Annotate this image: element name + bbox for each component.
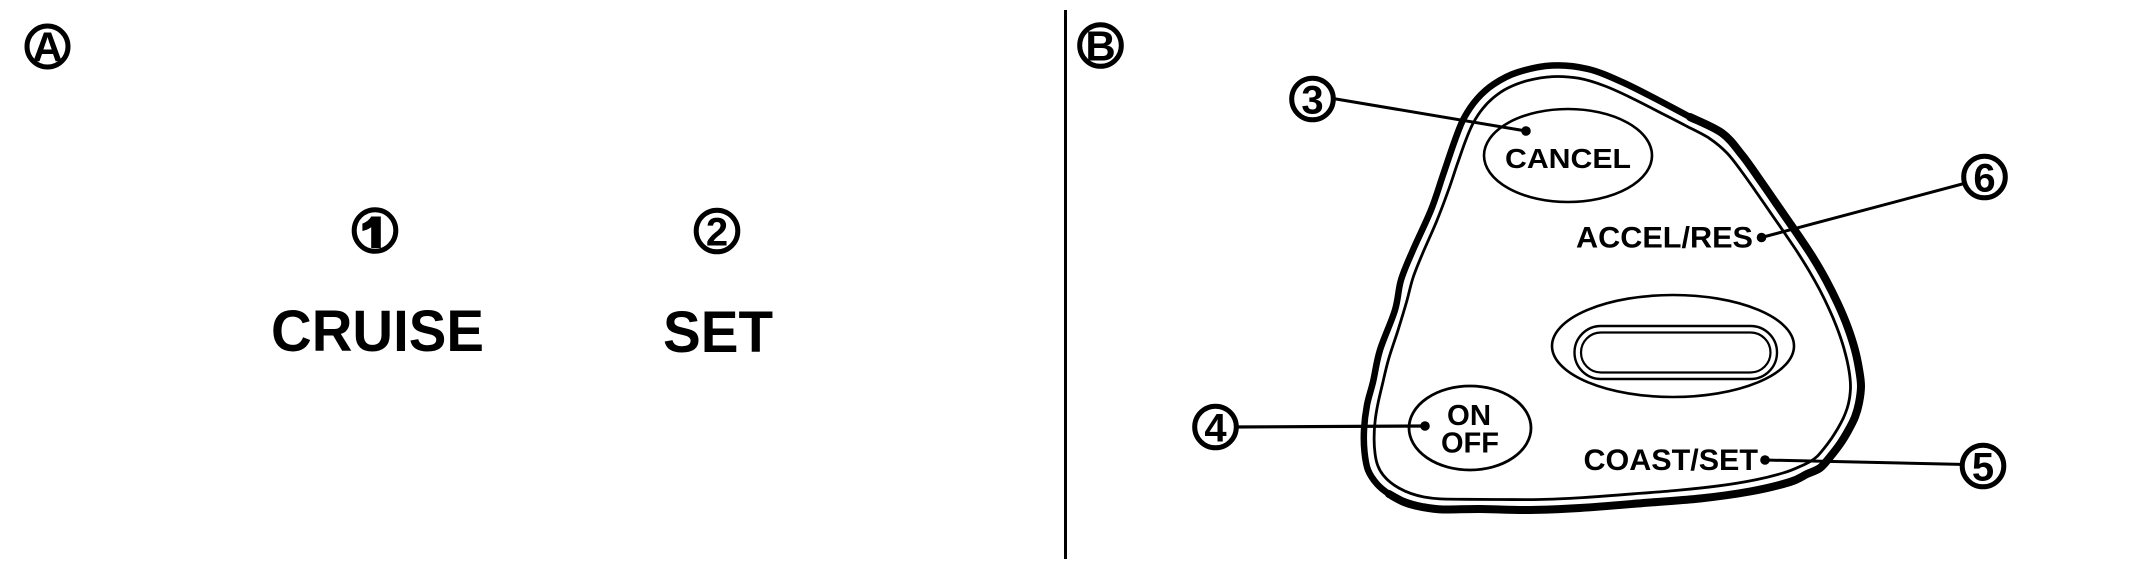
label B (circled) — [1080, 23, 1122, 70]
control pad outer outline (heavier right/bottom stroke) — [1389, 117, 1861, 510]
callout 3 leader dot — [1521, 126, 1531, 136]
svg-text:B: B — [1085, 23, 1115, 70]
callout 4 leader dot — [1420, 421, 1430, 431]
callout 3 (circled) — [1292, 78, 1334, 122]
callout 5 leader line — [1765, 460, 1966, 465]
svg-text:5: 5 — [1972, 446, 1994, 490]
svg-text:4: 4 — [1204, 407, 1227, 451]
svg-text:6: 6 — [1973, 157, 1995, 201]
svg-text:ACCEL/RES: ACCEL/RES — [1576, 222, 1753, 255]
callout 2 (circled) — [696, 210, 738, 254]
callout 5 (circled) — [1962, 445, 2004, 489]
CANCEL button oval — [1484, 109, 1652, 202]
ON/OFF button oval — [1409, 386, 1531, 470]
svg-text:OFF: OFF — [1441, 428, 1499, 460]
callout 3 leader line — [1330, 98, 1526, 131]
callout 6 (circled) — [1964, 156, 2006, 200]
label A (circled) — [27, 24, 68, 71]
svg-text:3: 3 — [1301, 79, 1323, 123]
svg-text:A: A — [32, 24, 62, 71]
control pad inner outline — [1374, 76, 1850, 499]
svg-text:2: 2 — [706, 211, 728, 255]
callout 6 leader line — [1762, 183, 1967, 238]
svg-text:COAST/SET: COAST/SET — [1584, 444, 1759, 477]
svg-text:CRUISE: CRUISE — [271, 299, 484, 364]
divider line — [1064, 10, 1067, 559]
svg-text:CANCEL: CANCEL — [1505, 143, 1631, 174]
callout 6 leader dot — [1757, 233, 1767, 243]
callout 4 leader line — [1232, 426, 1425, 427]
slider pill inner — [1581, 333, 1771, 373]
slider recess outer oval — [1552, 295, 1794, 397]
svg-text:SET: SET — [663, 300, 773, 365]
control pad outer outline — [1364, 65, 1861, 510]
slider pill outer — [1575, 326, 1778, 379]
callout 4 (circled) — [1195, 406, 1237, 450]
callout 1 (circled) — [354, 210, 396, 252]
callout 5 leader dot — [1760, 455, 1770, 465]
